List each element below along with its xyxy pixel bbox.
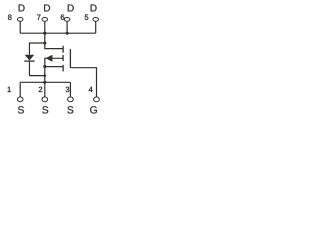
wire pin2 stem xyxy=(44,82,46,97)
pin number 4 xyxy=(89,87,93,92)
junction dot pin6/drain bus xyxy=(66,32,69,35)
pin 8 terminal circle xyxy=(17,18,23,22)
pin 2 terminal circle xyxy=(42,97,48,102)
label D pin7 xyxy=(44,5,50,12)
label S pin1 xyxy=(18,106,24,113)
wire gate run to pin 4 xyxy=(70,68,96,97)
MOSFET gate bar xyxy=(69,49,71,68)
wire pin7 stem xyxy=(44,21,46,33)
diode cathode bar xyxy=(24,60,34,62)
junction dot diode bottom xyxy=(43,74,46,77)
pin 6 terminal circle xyxy=(64,18,70,22)
wire drain drop to MOSFET xyxy=(45,33,63,48)
wire source bus xyxy=(20,81,70,83)
pin number 1 xyxy=(8,87,11,92)
junction dot source stub xyxy=(43,65,46,68)
junction dot pin7/drain bus xyxy=(43,32,46,35)
label D pin5 xyxy=(91,5,97,12)
label D pin6 xyxy=(68,5,74,12)
wire pin1 stem xyxy=(19,82,21,97)
pin number 6 xyxy=(61,14,65,19)
pin 1 terminal circle xyxy=(17,97,23,102)
pin number 3 xyxy=(66,87,70,92)
label D pin8 xyxy=(19,5,25,12)
junction dot source bus xyxy=(43,81,46,84)
wire pin8 stem xyxy=(19,21,21,33)
pin number 5 xyxy=(85,15,89,20)
label S pin3 xyxy=(67,106,73,113)
MOSFET channel bar bottom segment xyxy=(62,65,64,72)
pin 4 terminal circle xyxy=(94,97,100,102)
pin 5 terminal circle xyxy=(93,18,99,22)
diode D1 body triangle xyxy=(25,55,35,61)
pin number 2 xyxy=(39,87,42,92)
wire diode bottom branch xyxy=(29,61,44,75)
MOSFET channel bar middle segment xyxy=(62,55,64,61)
pin 7 terminal circle xyxy=(42,18,48,22)
wire diode top branch xyxy=(29,43,44,55)
wire drain bus xyxy=(20,32,96,34)
pin 3 terminal circle xyxy=(68,97,74,102)
wire pin3 stem xyxy=(69,82,71,97)
wire MOSFET source stub xyxy=(45,66,63,68)
label S pin2 xyxy=(42,106,48,113)
MOSFET channel bar top segment xyxy=(62,46,64,53)
wire pin5 stem xyxy=(95,21,97,33)
wire pin6 stem xyxy=(66,21,68,33)
MOSFET body arrow xyxy=(46,55,53,62)
pin number 8 xyxy=(8,14,12,19)
junction dot diode top xyxy=(43,41,46,44)
label G pin4 xyxy=(90,106,97,113)
wire MOSFET body stub with corner down xyxy=(45,58,63,82)
pin number 7 xyxy=(37,15,40,20)
